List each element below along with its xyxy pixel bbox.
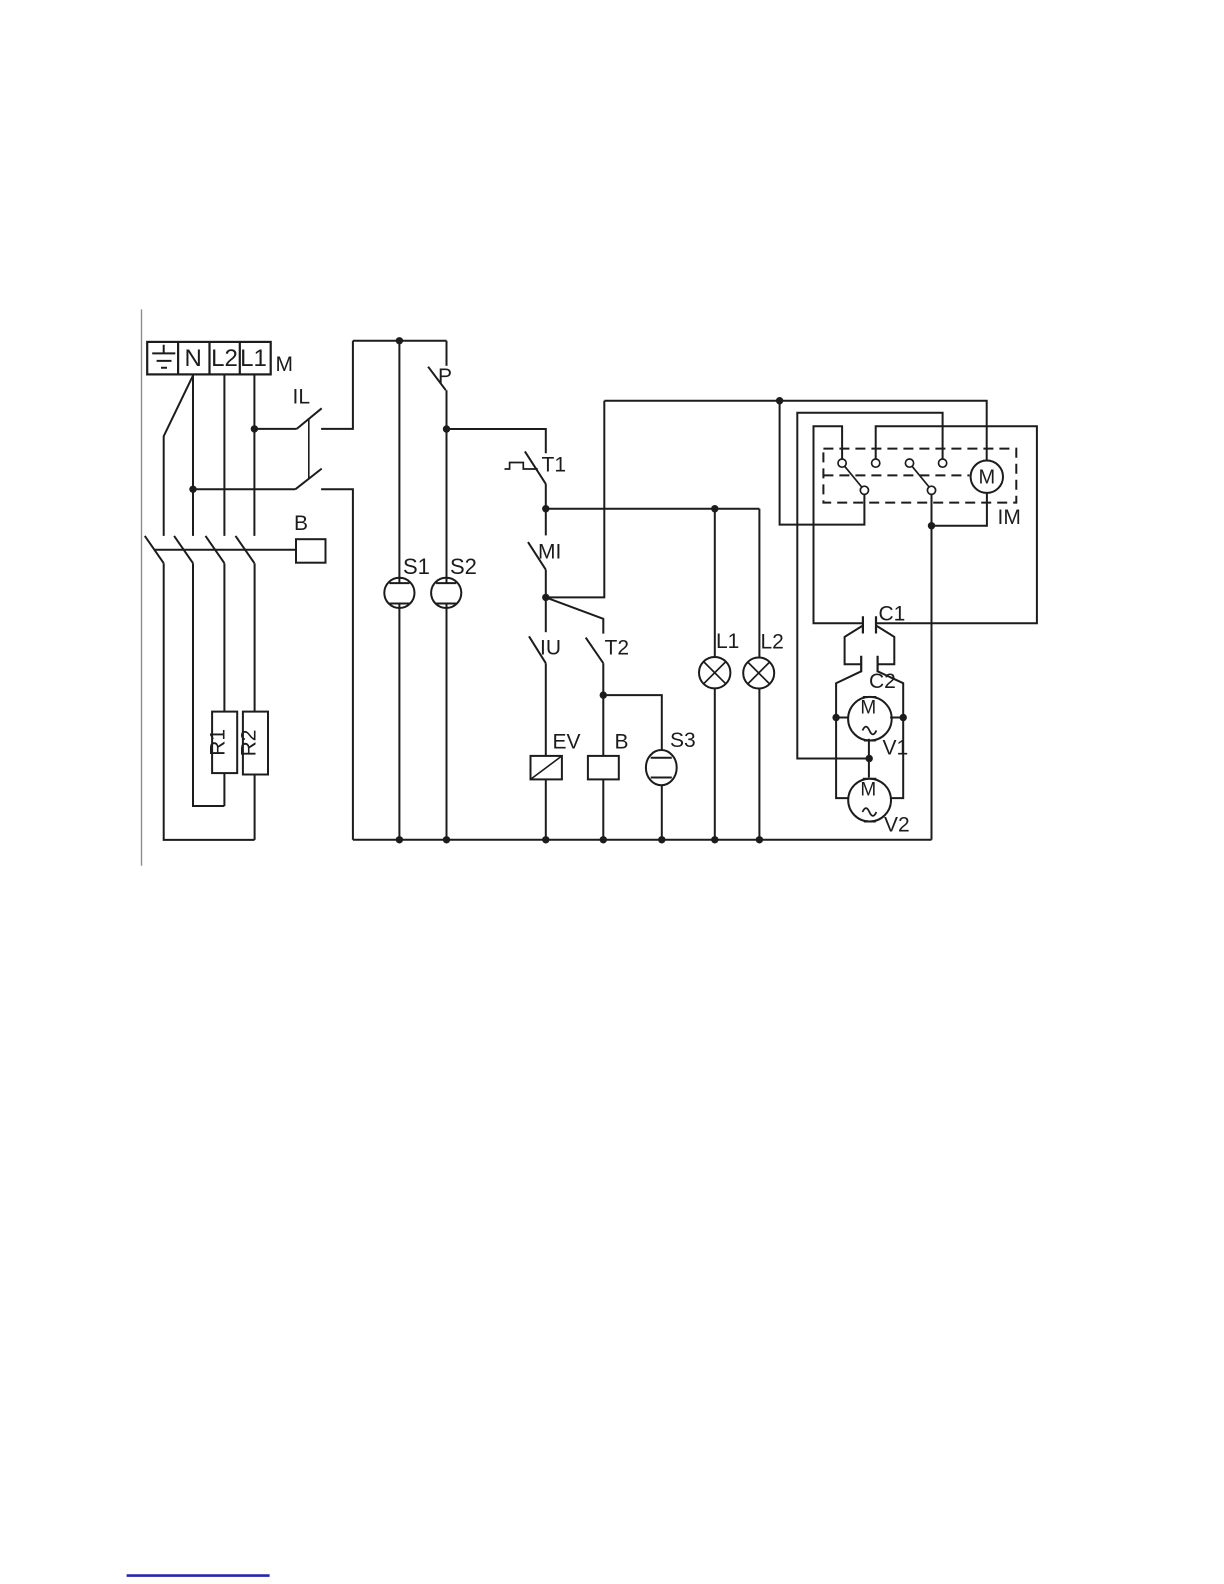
wire pole 4 to R2 top [254,563,256,711]
node L1 / IL [251,425,258,432]
node rail L1 [711,836,718,843]
lamp L2 [743,658,774,689]
solenoid valve EV [531,756,562,780]
node V1 V2 midpoint [866,755,873,762]
svg-text:V2: V2 [884,814,910,837]
svg-text:T1: T1 [542,454,567,477]
wire C2 left to V1 left [836,671,861,798]
node rail EV [542,836,549,843]
svg-text:L2: L2 [761,631,784,654]
wire L1 lower [714,688,716,839]
node MI out [542,594,549,601]
switch bank blade pole 1 [145,536,164,563]
wire MI to node [545,570,547,598]
wire pole 1 to R2 bottom [164,563,255,840]
wire L1 upper [714,509,716,657]
switch bank linkage to B [155,549,296,551]
timer actuator symbol T1 [505,463,538,470]
svg-text:L1: L1 [716,630,739,653]
wire blade b down to bottom rail [931,494,933,839]
capacitor C1 plates [863,616,876,633]
node rail S3 [658,836,665,843]
IM dashed midline [823,474,969,476]
wire S1 branch upper [398,341,400,583]
switch bank blade pole 3 [206,536,225,563]
node V1 right [900,714,907,721]
svg-text:V1: V1 [883,737,909,760]
wire IU to EV [545,663,547,756]
wire N to IL pole b [193,488,295,490]
IM terminal 2 [872,459,880,467]
wire V1 to V2 [868,739,870,778]
svg-text:IM: IM [998,506,1021,529]
wire S2 branch upper [446,429,448,583]
wire rail to P [446,341,448,366]
node lamp L1 feed [711,505,718,512]
wire L2 down [223,374,225,536]
svg-text:M: M [860,779,876,800]
svg-text:B: B [615,731,629,754]
wire blade a return to feed node [780,401,865,525]
wire MI node to fan feed riser [546,401,605,598]
IM terminal 1 [838,459,846,467]
node rail B [600,836,607,843]
wire node to T1 [447,429,546,453]
capacitor C2 plates [861,656,877,673]
switch IL pole b blade [295,469,321,490]
wire bottom rail [353,839,932,841]
IM terminal 4 [939,459,947,467]
node rail S1 [396,836,403,843]
wire N down [192,374,194,536]
svg-text:L1: L1 [240,345,267,372]
heating element R1 [207,712,238,774]
IM selector blade a [845,466,862,487]
wire MI node diagonal to T2 [546,597,604,633]
thermostat bulb B [296,539,326,563]
terminal block dividers [178,342,240,375]
wire P to node [446,390,448,429]
buzzer coil B [588,756,619,780]
wire C2 right to V1 right [878,671,904,798]
svg-text:P: P [438,365,452,388]
heating element R2 [237,712,268,775]
node blade b / IM motor [928,522,935,529]
svg-text:EV: EV [553,731,581,754]
switch bank blade pole 4 [236,536,255,563]
wire V1 right stub [890,717,903,719]
wire fan feed rail to IM motor [604,401,986,460]
node top rail / S1 [396,337,403,344]
wire L2 upper [758,509,760,658]
wire L1 to IL pole a [254,428,296,430]
igniter S1 [384,578,414,608]
svg-text:L2: L2 [211,345,238,372]
wire T1 node to lamps [546,508,760,510]
svg-text:MI: MI [538,541,561,564]
footer rule [127,1574,270,1577]
wire terminal 4 to fan midpoint [797,413,942,759]
svg-text:T2: T2 [605,637,630,660]
page margin rule [141,309,143,865]
node P / S2 / T1 [443,425,450,432]
node N / IL [189,486,196,493]
wire R1 bottom [223,773,225,806]
fan motor V1 [848,697,892,741]
svg-text:R2: R2 [237,730,260,757]
node fan feed / blade1 return [776,397,783,404]
svg-text:C1: C1 [879,603,906,626]
terminal block M outline [147,342,271,375]
wire T2 to node [602,663,604,695]
svg-text:M: M [978,466,995,488]
igniter S3 [646,750,677,785]
switch P blade [428,367,446,391]
svg-text:S3: S3 [670,729,696,752]
wire IL pole a fixed side to top rail [321,341,353,429]
switch T1 blade [525,451,546,484]
node rail S2 [443,836,450,843]
node rail L2 [756,836,763,843]
wire L1 down [253,374,255,536]
wire node to B coil [602,695,604,756]
wire top rail [353,340,447,342]
lamp L1 [699,657,730,688]
node T1 out [542,505,549,512]
wire node to S3 [603,695,662,750]
svg-text:IL: IL [293,386,311,409]
fan motor V2 [848,779,891,822]
wire L2 lower [758,689,760,840]
IM moving terminal a [860,486,868,494]
svg-text:S1: S1 [403,554,430,579]
wire B coil to bottom rail [602,779,604,839]
svg-text:IU: IU [540,637,561,660]
wire C1 to C2 left loop [845,626,863,665]
wire MI upper [545,509,547,536]
switch MI blade [528,542,546,570]
IM moving terminal b [927,486,935,494]
node V1 left [832,714,839,721]
svg-text:B: B [294,512,308,535]
wire terminal 2 to C1 right [876,426,1037,623]
igniter S2 [431,578,461,608]
switch IL linkage [308,419,310,479]
IM dashed enclosure [823,449,1016,503]
wire EV to bottom rail [545,779,547,839]
wire IM motor bottom [932,493,987,526]
wire T1 to node [545,484,547,509]
switch IL pole a blade [297,408,322,429]
wire S3 to bottom rail [661,785,663,840]
wire IL pole b fixed side down to bottom rail [321,489,353,840]
wire MI node to IU [545,597,547,632]
IM selector blade b [912,466,929,487]
svg-text:S2: S2 [450,554,477,579]
wire C1 to C2 right loop [876,626,894,665]
wire pole 2 to R1 bottom [193,563,224,806]
svg-text:M: M [860,698,876,719]
wire V1 left stub [836,717,848,719]
svg-text:M: M [276,353,294,376]
node B / S3 [600,691,607,698]
wire R2 bottom [254,775,256,840]
svg-text:R1: R1 [207,729,230,756]
wire N diagonal to pole 1 [164,376,193,536]
switch IU blade [529,636,546,663]
switch bank blade pole 2 [174,536,193,563]
wire S1 branch lower [398,604,400,840]
switch T2 blade [586,638,604,664]
wire terminal 1 to C1 left [814,426,863,623]
IM fan motor [971,461,1003,493]
IM terminal 3 [905,459,913,467]
wire S2 branch lower [446,604,448,840]
ground symbol [152,345,175,368]
wire pole 3 to R1 top [223,563,225,711]
svg-text:N: N [185,345,202,372]
